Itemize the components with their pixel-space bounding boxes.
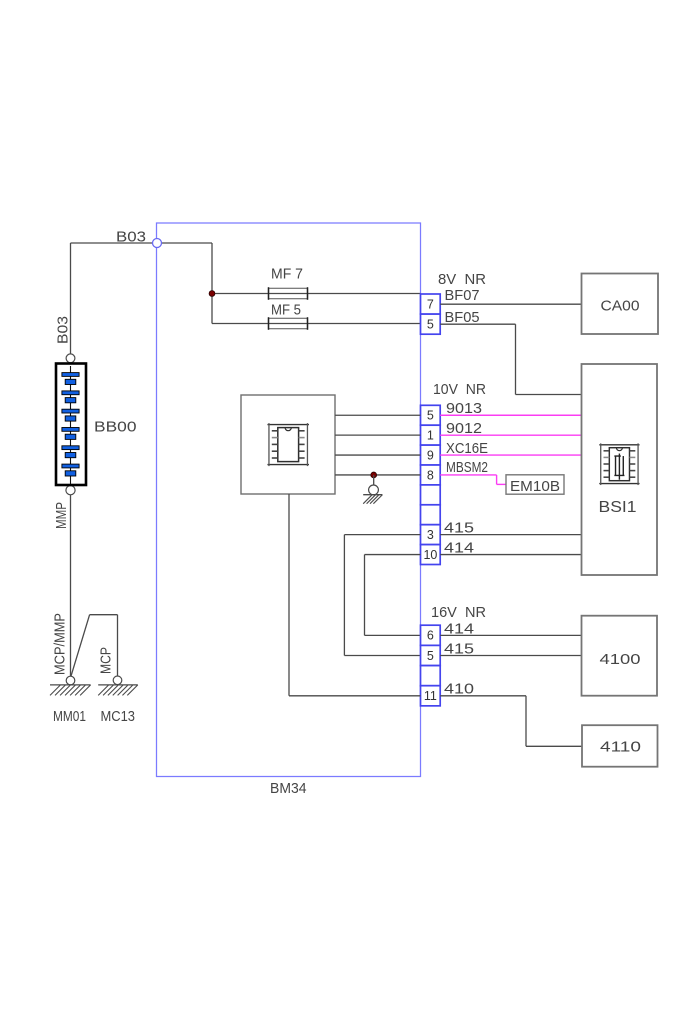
svg-text:8: 8 [427,468,434,482]
svg-text:10V NR: 10V NR [433,382,486,398]
svg-text:9: 9 [427,448,434,462]
svg-text:EM10B: EM10B [510,479,560,495]
svg-text:414: 414 [444,621,474,637]
svg-text:BM34: BM34 [270,780,307,797]
svg-text:7: 7 [427,297,434,311]
svg-text:MMP: MMP [54,502,70,529]
svg-text:MC13: MC13 [101,709,136,725]
svg-text:MCP: MCP [99,647,115,674]
svg-text:CA00: CA00 [601,298,640,315]
svg-text:3: 3 [427,528,434,542]
svg-text:MF 5: MF 5 [271,303,301,319]
svg-text:16V NR: 16V NR [431,605,486,621]
svg-text:MCP/MMP: MCP/MMP [53,613,69,675]
svg-text:410: 410 [444,681,474,697]
svg-text:BSI1: BSI1 [599,499,637,516]
svg-text:10: 10 [423,548,437,562]
svg-text:4110: 4110 [600,739,641,756]
svg-text:9013: 9013 [446,401,482,417]
svg-text:BF07: BF07 [445,288,480,304]
svg-text:B03: B03 [56,316,72,344]
svg-text:6: 6 [427,629,434,643]
svg-text:BF05: BF05 [445,310,480,326]
svg-text:MM01: MM01 [53,709,86,725]
svg-text:9012: 9012 [446,421,482,437]
svg-text:11: 11 [424,689,437,703]
svg-text:5: 5 [427,317,434,331]
svg-text:MBSM2: MBSM2 [446,460,488,476]
svg-text:1: 1 [427,428,434,442]
svg-text:4100: 4100 [600,651,641,668]
svg-text:BB00: BB00 [94,419,137,436]
svg-text:5: 5 [427,409,434,423]
svg-text:415: 415 [444,521,474,537]
svg-text:5: 5 [427,649,434,663]
svg-text:XC16E: XC16E [446,441,488,457]
svg-text:415: 415 [444,642,474,658]
svg-text:414: 414 [444,541,474,557]
svg-text:8V NR: 8V NR [438,272,486,288]
svg-text:B03: B03 [116,229,146,246]
svg-text:MF 7: MF 7 [271,267,303,283]
